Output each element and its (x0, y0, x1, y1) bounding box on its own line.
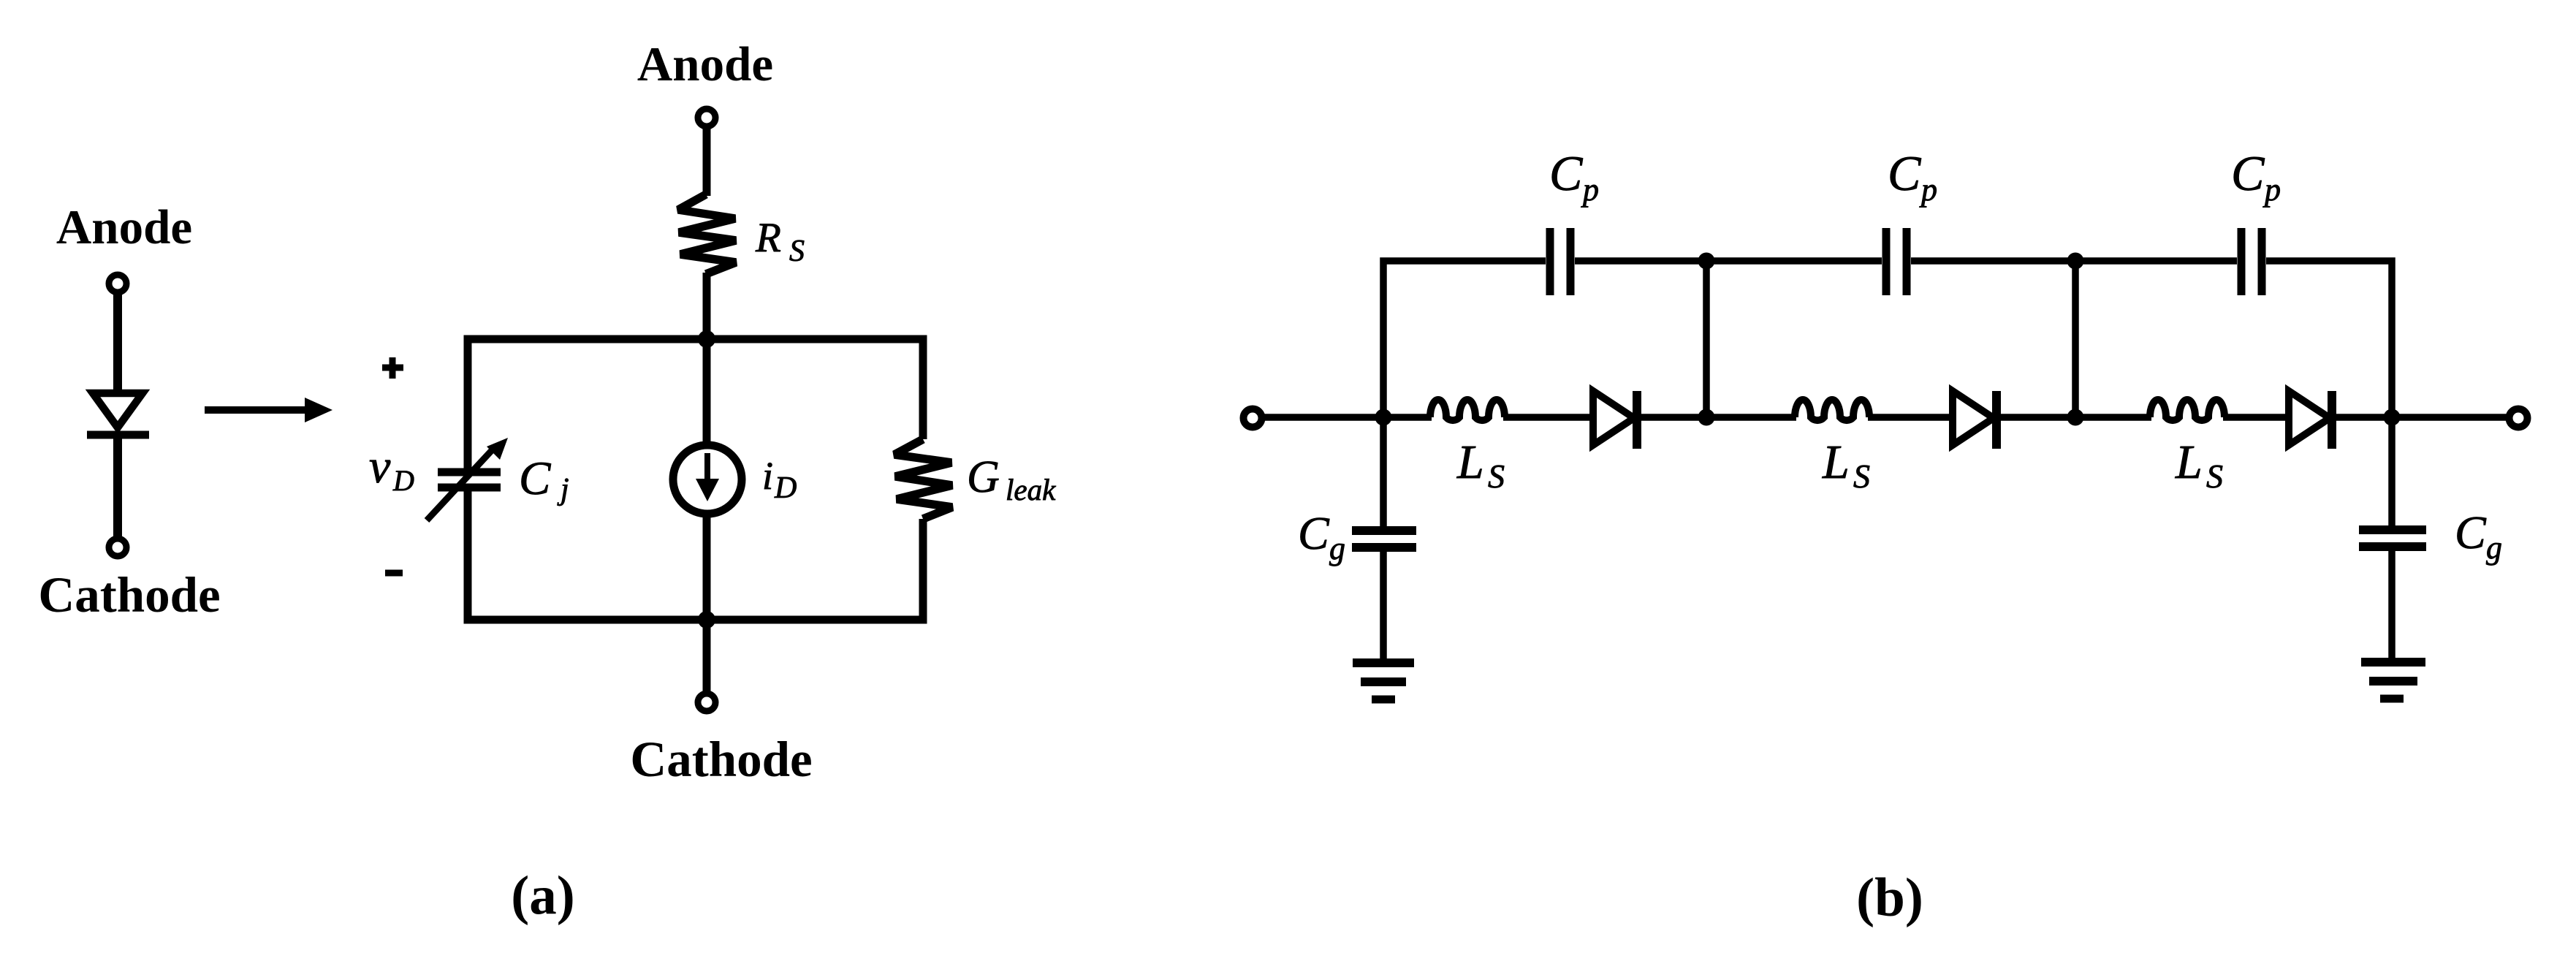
wire node 4 down to Cg right (2388, 417, 2395, 527)
diode D1 (1593, 391, 1637, 449)
svg-text:C: C (519, 452, 551, 505)
label C_p 1 (1549, 145, 1599, 208)
capacitor C_j (variable) (427, 438, 508, 520)
capacitor C_g right (2359, 530, 2426, 547)
svg-text:p: p (2262, 172, 2281, 208)
wire Cg left to ground (1380, 550, 1387, 661)
wire L3 to diode D3 (2223, 414, 2290, 421)
label - (385, 570, 403, 577)
diode symbol (87, 393, 149, 435)
wire diode to cathode (113, 435, 122, 539)
svg-text:R: R (755, 215, 781, 261)
svg-text:D: D (392, 464, 414, 497)
ground right (2361, 662, 2425, 699)
svg-text:C: C (1888, 145, 1921, 201)
label G_leak (967, 452, 1056, 506)
capacitor C_p 3 (2241, 228, 2262, 295)
wire D2 to node 3 main (2001, 414, 2151, 421)
model box wires (468, 339, 923, 620)
wire node 1 down to Cg left (1380, 417, 1387, 528)
wire top rail Cp2 to node 3 (1911, 257, 2079, 265)
wire D3 to output (2336, 414, 2511, 421)
wire top rail Cp3 to right corner down to output node (2266, 261, 2392, 417)
node 4 (output junction) (2384, 409, 2401, 426)
svg-text:Anode: Anode (637, 37, 773, 91)
wire R_S to node A (703, 273, 711, 339)
inductor L_S 3 (2150, 400, 2224, 420)
wire top rail node2 to Cp2 (1706, 257, 1882, 265)
wire node A to current source (703, 339, 711, 447)
wire L2 to diode D2 (1868, 414, 1954, 421)
svg-text:C: C (1549, 145, 1583, 201)
wire top rail Cp1 to node 2 (1575, 257, 1710, 265)
svg-text:p: p (1919, 172, 1937, 208)
label i_D (762, 454, 797, 505)
terminal cathode of diode symbol (109, 539, 126, 556)
label C_j (519, 452, 569, 506)
svg-text:p: p (1581, 172, 1599, 208)
capacitor C_p 1 (1550, 228, 1570, 295)
wire node 3 down to main line (2072, 261, 2079, 417)
current source i_D (673, 445, 742, 514)
wire anode to R_S (703, 126, 711, 196)
svg-text:i: i (762, 454, 773, 498)
wire top rail node3 to Cp3 (2075, 257, 2237, 265)
node B (bottom junction of model box) (698, 611, 715, 629)
terminal output (b) (2509, 409, 2528, 428)
wire to cathode terminal (703, 620, 711, 694)
resistor R_S (678, 194, 736, 274)
svg-text:S: S (2206, 457, 2223, 495)
svg-text:Cathode: Cathode (38, 567, 220, 623)
svg-text:C: C (2231, 145, 2265, 201)
node 2 (main line) (1698, 409, 1715, 426)
label v_D (369, 440, 414, 497)
terminal input (b) (1244, 409, 1262, 428)
svg-text:C: C (2455, 506, 2487, 558)
node 3 (top rail) (2067, 253, 2084, 270)
node 1 (1375, 409, 1392, 426)
svg-text:Anode: Anode (56, 200, 192, 254)
label L_S 3 (2175, 436, 2223, 495)
wire Cg right to ground (2388, 550, 2395, 661)
node 3 (main line) (2067, 409, 2084, 426)
resistor G_leak (894, 439, 952, 519)
wire node B to cathode (703, 539, 711, 620)
terminal anode of diode symbol (109, 275, 126, 292)
terminal cathode of model (698, 694, 715, 711)
wire input to node 1 (1261, 414, 1432, 421)
svg-text:S: S (789, 235, 805, 268)
wire D1 to node 2 main (1641, 414, 1796, 421)
svg-text:L: L (1822, 436, 1850, 489)
svg-text:D: D (774, 471, 797, 505)
svg-text:L: L (2175, 436, 2203, 489)
label C_p 2 (1888, 145, 1937, 208)
ground left (1353, 663, 1414, 699)
label + (382, 357, 403, 379)
diode D2 (1953, 391, 1996, 449)
label C_g left (1298, 507, 1345, 566)
wire node 2 down to main line (1703, 261, 1710, 417)
svg-text:(b): (b) (1856, 867, 1923, 928)
wire current source to node B (703, 512, 711, 620)
svg-text:G: G (967, 452, 1000, 502)
inductor L_S 2 (1795, 400, 1869, 420)
label R_S (755, 215, 805, 268)
svg-text:leak: leak (1006, 473, 1056, 506)
label C_g right (2455, 506, 2502, 566)
svg-text:S: S (1853, 457, 1870, 495)
label L_S 1 (1456, 436, 1505, 495)
terminal anode of model (698, 109, 715, 126)
wire anode to diode (113, 292, 122, 393)
svg-text:g: g (2486, 530, 2502, 566)
svg-text:(a): (a) (511, 865, 574, 926)
svg-text:g: g (1329, 531, 1345, 566)
svg-text:Cathode: Cathode (630, 732, 812, 787)
capacitor C_p 2 (1886, 228, 1907, 295)
capacitor C_g left (1352, 531, 1416, 547)
diode D3 (2289, 391, 2332, 449)
label C_p 3 (2231, 145, 2281, 208)
label L_S 2 (1822, 436, 1870, 495)
svg-text:v: v (369, 440, 391, 493)
wire L1 to diode D1 (1503, 414, 1595, 421)
wire node 1 up to top rail (left corner) (1383, 261, 1546, 417)
svg-text:S: S (1488, 457, 1505, 495)
svg-text:C: C (1298, 507, 1330, 559)
node 2 (top rail) (1698, 253, 1715, 270)
arrow (symbol to model) (205, 398, 333, 422)
svg-text:L: L (1456, 436, 1484, 489)
inductor L_S 1 (1430, 400, 1505, 420)
node A (top junction of model box) (698, 330, 715, 348)
